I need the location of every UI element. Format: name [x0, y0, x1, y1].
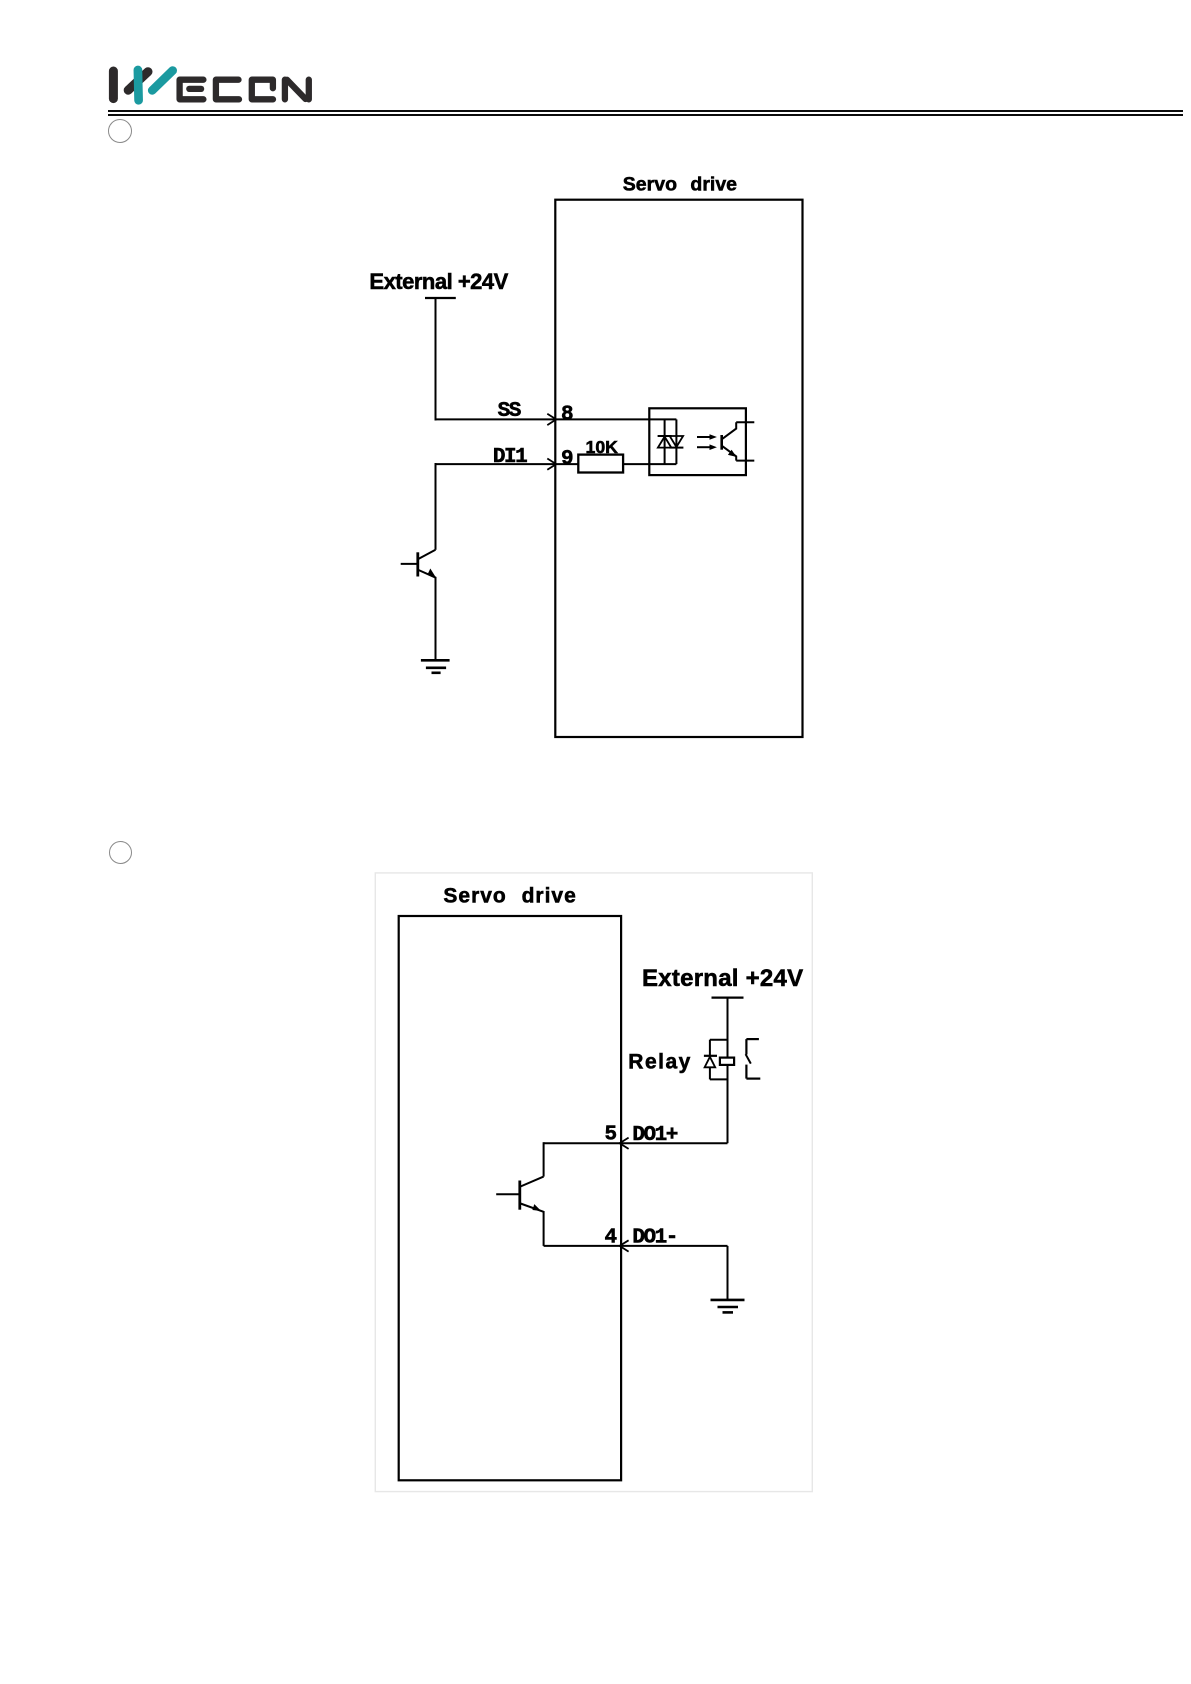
Wecon logo	[100, 55, 330, 115]
svg-text:DI1: DI1	[493, 446, 527, 469]
ground G1 line 3	[432, 671, 441, 674]
logo letter C	[216, 80, 239, 100]
ground G2 line 3	[723, 1311, 734, 1314]
ground G2 line 1	[711, 1299, 745, 1302]
svg-text:9: 9	[561, 448, 573, 471]
servo drive box	[555, 200, 802, 737]
transistor Q1 base lead	[401, 563, 418, 565]
diode D1 cathode bar	[704, 1055, 717, 1057]
contact top pole	[745, 1039, 747, 1054]
diode branch top connector	[710, 1039, 728, 1041]
transistor Q1 emitter diagonal	[419, 570, 437, 578]
LED diode up	[658, 435, 672, 437]
arrow pin 4	[620, 1240, 629, 1251]
svg-text:4: 4	[605, 1227, 617, 1250]
transistor Q2 base lead	[496, 1193, 520, 1195]
svg-text:SS: SS	[498, 400, 521, 423]
ground G2 line 2	[718, 1306, 739, 1309]
logo letter N	[282, 80, 288, 100]
svg-text:8: 8	[561, 403, 573, 426]
phototransistor emitter	[722, 446, 736, 461]
transistor Q1 base bar	[416, 552, 419, 576]
transistor Q2 emitter diagonal	[521, 1204, 544, 1212]
svg-text:DO1-: DO1-	[632, 1227, 676, 1250]
diode D1 triangle	[705, 1057, 716, 1068]
svg-text:Servo drive: Servo drive	[443, 884, 576, 907]
diode branch upper wire	[709, 1040, 711, 1056]
relay coil K1	[720, 1058, 734, 1065]
contact bottom stub	[746, 1077, 760, 1079]
wire resistor to optocoupler	[623, 463, 676, 465]
ground G1 line 1	[421, 659, 450, 662]
resistor R 10K	[578, 455, 623, 473]
svg-text:External +24V: External +24V	[642, 965, 803, 992]
transistor Q2 emitter arrowhead	[532, 1204, 541, 1211]
phototransistor base bar	[720, 435, 723, 450]
logo teal bar	[134, 70, 143, 100]
wire SS horizontal	[435, 418, 556, 420]
transistor Q1 collector wire	[435, 463, 437, 550]
bullet circle 2	[109, 841, 132, 864]
contact blade	[746, 1054, 751, 1063]
svg-text:5: 5	[605, 1124, 617, 1147]
wire DO1+ horizontal	[544, 1142, 728, 1144]
phototransistor collector	[722, 422, 736, 439]
light arrow lower	[697, 446, 712, 448]
logo letter O	[252, 80, 273, 100]
transistor Q2 base bar	[518, 1181, 521, 1210]
transistor Q1 emitter arrowhead	[428, 569, 437, 578]
wire DI1 horizontal	[435, 463, 556, 465]
contact top stub	[746, 1038, 759, 1040]
transistor Q2 emitter wire	[543, 1211, 545, 1246]
panel light frame	[375, 873, 812, 1492]
transistor Q1 emitter wire	[435, 577, 437, 660]
diode branch bottom connector	[710, 1078, 728, 1080]
transistor Q1 collector diagonal	[419, 550, 436, 559]
logo teal slash	[152, 71, 173, 91]
LED left rail	[664, 419, 666, 464]
LED diode down	[670, 436, 683, 447]
svg-text:External +24V: External +24V	[369, 269, 508, 294]
wire SS inside box	[556, 418, 677, 420]
bullet circle 1	[108, 119, 132, 143]
optocoupler U1 box	[649, 408, 746, 475]
wire +24V down	[435, 298, 437, 421]
svg-text:Relay: Relay	[628, 1051, 692, 1074]
svg-text:Servo drive: Servo drive	[623, 174, 737, 196]
LED right rail	[675, 419, 677, 464]
+24V rail	[425, 297, 456, 299]
wire DO1- horizontal	[544, 1245, 728, 1247]
transistor Q2 collector wire	[543, 1142, 545, 1176]
logo letter E	[180, 80, 204, 100]
wire +24V down to coil	[727, 998, 729, 1058]
ground G1 line 2	[426, 666, 446, 669]
wire DO1- down to ground	[727, 1246, 729, 1300]
diode branch lower wire	[709, 1067, 711, 1079]
header rule lower	[108, 114, 1183, 116]
svg-text:DO1+: DO1+	[632, 1124, 677, 1147]
header rule upper	[108, 110, 1183, 112]
logo black slash	[128, 72, 148, 91]
wire pin9 to resistor	[556, 463, 578, 465]
contact bottom pole	[745, 1065, 747, 1079]
arrow pin 5	[620, 1138, 629, 1149]
servo drive box	[399, 916, 621, 1480]
+24V rail	[712, 996, 744, 998]
transistor Q2 collector diagonal	[521, 1177, 544, 1187]
wire coil down	[727, 1065, 729, 1143]
logo bar I	[109, 71, 118, 99]
light arrow upper	[697, 436, 712, 438]
arrow pin 8	[547, 414, 556, 425]
arrow pin 9	[547, 459, 556, 470]
